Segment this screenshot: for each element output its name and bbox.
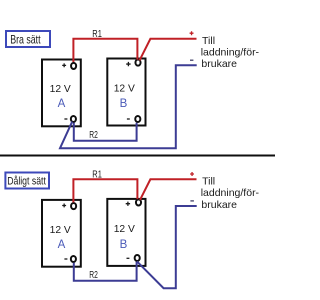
svg-text:R2: R2 [89,130,98,141]
svg-text:12 V: 12 V [50,84,71,95]
consumer minus sign (top) [190,59,193,61]
consumer minus sign (bottom) [190,200,194,202]
battery A plus terminal [71,63,76,69]
wire to consumer minus (bottom, from B-) [137,206,197,288]
wire R2 (bottom, A- to B-) [74,262,137,281]
wire R1 (bottom, A+ to B+) [73,179,137,202]
svg-text:R1: R1 [92,28,102,40]
svg-text:Till: Till [202,175,215,187]
wire to consumer minus (top, from A-) [60,65,197,148]
svg-text:A: A [58,239,66,251]
battery A minus terminal [71,116,76,122]
battery A plus sign [62,63,66,67]
svg-text:A: A [58,98,66,110]
battery A (bottom) [42,200,81,267]
battery B (top) [107,59,145,126]
battery B minus sign [127,118,130,120]
battery A plus terminal (bottom) [71,203,76,209]
battery A (top) [42,60,81,127]
consumer plus sign (top) [190,31,194,35]
battery B plus terminal [135,60,140,66]
battery B plus terminal (bottom) [136,199,141,205]
svg-text:R1: R1 [92,169,102,181]
wire R2 (top, A- to B-) [74,123,137,141]
consumer plus sign (bottom) [190,172,194,176]
label box 'Daligt satt' [5,173,49,189]
battery B plus sign (bottom) [126,202,130,206]
battery A plus sign (bottom) [62,204,66,208]
svg-text:12 V: 12 V [114,224,135,235]
battery B minus terminal (bottom) [135,255,140,261]
svg-text:laddning/för-: laddning/för- [201,47,260,59]
svg-text:B: B [120,98,128,110]
svg-text:12 V: 12 V [114,84,135,95]
consumer text (bottom) [201,175,260,211]
svg-text:12 V: 12 V [50,225,71,236]
svg-text:brukare: brukare [201,58,237,70]
svg-text:Dåligt sätt: Dåligt sätt [7,176,46,188]
label box 'Bra satt' [6,31,50,47]
separator line [0,155,275,157]
battery B minus terminal [135,116,140,122]
svg-text:Bra sätt: Bra sätt [10,33,41,46]
consumer text (top) [201,35,260,70]
battery B minus sign (bottom) [127,257,130,259]
svg-text:Till: Till [202,35,215,47]
battery B (bottom) [107,199,145,266]
battery A minus sign (bottom) [64,258,67,260]
svg-text:B: B [120,239,128,251]
svg-text:brukare: brukare [201,199,237,211]
battery B plus sign [126,62,130,66]
svg-text:R2: R2 [89,270,98,281]
battery A minus sign [64,118,67,120]
wire R1 (top, A+ to B+) [73,39,137,62]
svg-text:laddning/för-: laddning/för- [201,187,260,199]
battery A minus terminal (bottom) [71,256,76,262]
wire to consumer plus (top) [140,39,197,61]
wire to consumer plus (bottom) [140,179,197,200]
